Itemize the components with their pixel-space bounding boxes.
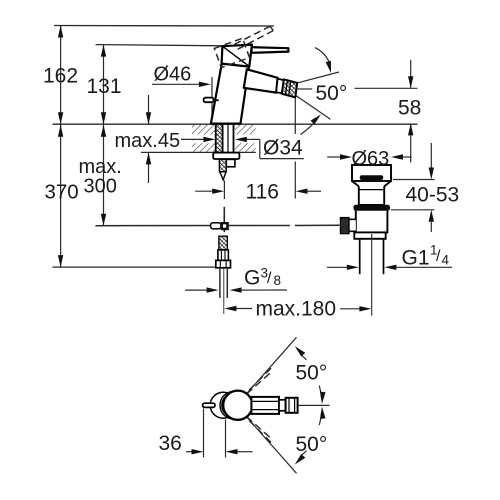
angle boundary line upper 50: [246, 337, 296, 394]
node mid circle inner: [222, 393, 246, 417]
svg-text:max.45: max.45: [115, 130, 181, 152]
node flange taper: [352, 181, 359, 186]
svg-text:4: 4: [442, 253, 450, 268]
dimension max.45 (deck thickness): [146, 95, 151, 183]
spout top view: [251, 397, 297, 414]
node drain flange: [352, 165, 391, 181]
dimension G3/8: [185, 287, 287, 292]
dimension 36: [186, 409, 253, 458]
washer under deck: [213, 153, 239, 159]
spout neck: [276, 79, 284, 94]
node tailpipe G1 1/4: [359, 239, 361, 274]
svg-text:/: /: [436, 248, 441, 265]
spray angle 50 side view: [296, 48, 339, 135]
svg-text:40-53: 40-53: [406, 184, 460, 207]
node white band for hole dimension arrows: [193, 135, 216, 144]
G3/8 union nut: [216, 260, 231, 267]
wire aerator band lines: [286, 81, 288, 95]
node extension line faucet axis: [223, 181, 225, 200]
dimension max.300: [101, 125, 106, 226]
svg-text:131: 131: [87, 75, 122, 98]
shank thread hatch: [216, 125, 222, 152]
svg-text:50°: 50°: [296, 433, 328, 456]
pop-up rod top view: [203, 403, 215, 407]
dimension 370: [58, 125, 63, 268]
pop-up waste drain assembly: [341, 165, 391, 274]
drain gasket black band: [353, 205, 390, 211]
svg-text:50°: 50°: [296, 362, 328, 385]
arc arrow lower: [301, 121, 317, 135]
aerator knurl texture: [283, 80, 296, 96]
deck hatching left: [192, 125, 216, 152]
dimension Ø63: [327, 154, 412, 159]
threaded stud below: [219, 159, 226, 179]
wire horizontal linkage rod: [95, 224, 339, 226]
wire spout level line: [298, 88, 313, 90]
aerator top view: [286, 398, 298, 413]
dashed swivel spout lower: [247, 417, 273, 444]
angle arc upper with arrows: [295, 346, 326, 404]
hose collar: [218, 250, 229, 261]
node body cylinder: [211, 64, 249, 124]
wire upper fan line: [297, 72, 339, 83]
node mid circle outer: [220, 391, 248, 419]
dashed swivel spout upper: [247, 367, 273, 394]
node head cap: [222, 45, 252, 67]
dimension 131: [101, 45, 106, 125]
spout: [244, 69, 278, 92]
svg-text:/: /: [267, 270, 272, 287]
dimension 162: [58, 26, 63, 125]
dimension 58: [298, 60, 418, 163]
svg-text:300: 300: [84, 176, 117, 198]
svg-text:Ø34: Ø34: [263, 137, 303, 160]
dimension 40-53: [391, 143, 435, 232]
node body circle top view: [223, 391, 252, 420]
faucet body side view: [211, 45, 297, 124]
head cap dashed rotated: [214, 38, 249, 67]
wire head diagonal: [223, 47, 249, 66]
svg-text:162: 162: [43, 65, 78, 88]
node extension line spout tip: [294, 98, 296, 134]
lever handle solid: [252, 47, 289, 53]
dimension max.180: [224, 306, 371, 312]
node drain bottom cap: [354, 232, 385, 238]
drain centerline: [371, 234, 373, 316]
arc arrow upper: [315, 48, 330, 65]
wire top reference line (handle-up height 162): [54, 25, 274, 28]
rod coupling block: [221, 222, 229, 230]
pop-up rod vertical: [223, 207, 225, 232]
lever handle dashed up position: [214, 26, 273, 67]
G3/8 pipe: [220, 268, 227, 314]
wire bottom reference line 370: [53, 266, 216, 268]
wire reference line 131 (head top): [96, 45, 223, 46]
plug top black band: [360, 175, 383, 180]
svg-text:36: 36: [159, 432, 182, 455]
knurled knob texture on side port: [341, 218, 348, 233]
node side port: [349, 219, 356, 231]
dimension 116: [195, 98, 321, 199]
svg-text:8: 8: [274, 273, 282, 288]
svg-text:58: 58: [398, 97, 421, 120]
pop-up rod knob side view: [204, 98, 219, 103]
svg-text:370: 370: [45, 181, 79, 204]
node body circle back: [210, 392, 236, 418]
shank in deck cross-section: [216, 124, 234, 152]
dimension G1 1/4: [327, 265, 452, 270]
dimension hole Ø34 right arrow and label frame: [235, 137, 304, 159]
dimension Ø46: [152, 77, 256, 117]
angle arc lower with arrows: [295, 407, 326, 465]
svg-text:50°: 50°: [316, 82, 348, 105]
supply hose crosshatched end: [219, 236, 227, 250]
wire deck bottom line: [141, 151, 256, 153]
wire lower fan line: [296, 96, 330, 120]
node drain upper cylinder: [359, 186, 384, 205]
angle boundary line lower 50: [246, 416, 296, 473]
svg-text:max.180: max.180: [256, 298, 337, 321]
deck hatching right: [235, 125, 256, 152]
aerator knurled tip: [282, 79, 297, 97]
svg-text:G: G: [244, 267, 260, 290]
svg-text:G1: G1: [402, 247, 430, 270]
svg-text:116: 116: [246, 181, 279, 204]
wire centerline bottom view: [298, 404, 329, 406]
node drain body: [356, 211, 388, 233]
spout neck top view: [279, 400, 286, 411]
svg-text:Ø46: Ø46: [154, 64, 192, 86]
svg-text:Ø63: Ø63: [352, 148, 390, 170]
wire deck top line: [53, 123, 418, 125]
dimension hole Ø34 leader left arrow: [181, 137, 215, 142]
rod clamp screw: [211, 223, 221, 229]
backnut: [226, 159, 235, 166]
